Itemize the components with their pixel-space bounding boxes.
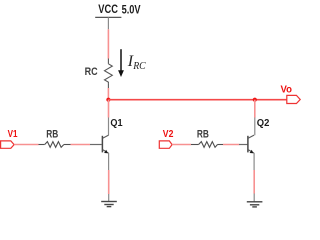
- transistor Q2: [248, 135, 254, 170]
- transistor Q1: [102, 135, 108, 170]
- wire node to Q1 collector: [108, 100, 110, 118]
- wire output net horizontal: [108, 99, 287, 101]
- VCC power rail symbol: [95, 16, 121, 18]
- ground 1: [101, 202, 117, 207]
- wire RB1 to Q1 base: [71, 144, 91, 146]
- svg-text:Q2: Q2: [257, 118, 270, 129]
- svg-text:RC: RC: [85, 66, 98, 78]
- wire Q2 emitter to ground: [253, 170, 255, 194]
- output port Vo: [287, 95, 300, 103]
- wire Q1 emitter to ground: [108, 170, 110, 194]
- svg-text:RB: RB: [197, 128, 209, 140]
- current arrow I_RC: [118, 49, 124, 77]
- resistor RC: [105, 59, 113, 89]
- node junction 1: [106, 98, 110, 102]
- resistor RB1: [39, 142, 71, 148]
- input port V1: [1, 141, 15, 148]
- wire RB2 to Q2 base: [223, 144, 239, 146]
- svg-text:V1: V1: [8, 129, 18, 140]
- node junction 2: [253, 98, 257, 102]
- svg-text:Vo: Vo: [281, 84, 293, 96]
- wire node2 to Q2 collector: [254, 100, 256, 118]
- svg-text:RB: RB: [46, 128, 58, 140]
- svg-text:5.0V: 5.0V: [122, 3, 141, 16]
- svg-text:Q1: Q1: [110, 118, 122, 129]
- wire V1 to RB1: [14, 144, 38, 146]
- resistor RB2: [191, 142, 223, 148]
- svg-text:V2: V2: [163, 129, 174, 140]
- svg-text:RC: RC: [132, 61, 146, 72]
- ground 2: [247, 202, 263, 207]
- wire V2 to RB2: [172, 144, 191, 146]
- svg-text:VCC: VCC: [98, 2, 118, 16]
- input port V2: [159, 141, 172, 148]
- wire RC to node: [107, 88, 109, 100]
- wire VCC to RC: [107, 29, 109, 58]
